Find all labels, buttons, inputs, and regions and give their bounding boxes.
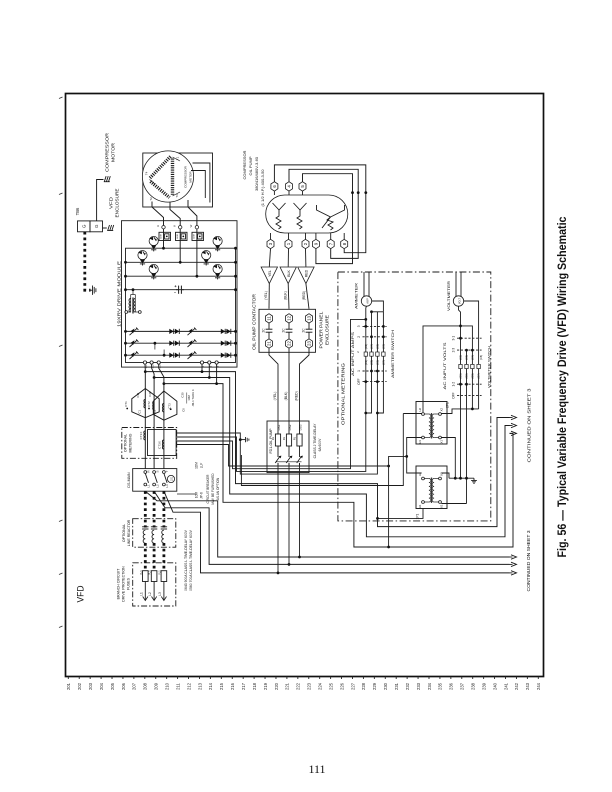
- contactor pole: hexagon, 2C contact, hexagon: [306, 314, 313, 323]
- ammeter switch wires: [365, 319, 367, 413]
- voltmeter leads: [455, 272, 457, 297]
- svg-text:CT3: CT3: [168, 403, 172, 409]
- ammeter leads: [363, 272, 365, 297]
- svg-text:232: 232: [405, 682, 410, 690]
- svg-text:(C4): (C4): [471, 355, 475, 360]
- svg-text:JM-1 THRU 6: JM-1 THRU 6: [191, 389, 195, 406]
- IGBT: [202, 251, 211, 260]
- svg-text:225: 225: [328, 682, 333, 690]
- svg-text:111: 111: [308, 762, 325, 776]
- svg-text:204: 204: [99, 682, 104, 690]
- wires pump terminals to color triangles: [269, 249, 270, 267]
- svg-text:W: W: [189, 224, 193, 227]
- svg-text:(C7): (C7): [477, 373, 481, 378]
- svg-text:COMPRESSOR: COMPRESSOR: [184, 165, 188, 188]
- DS-MAIN pole: [153, 471, 156, 474]
- FD1 interlock bar: [276, 461, 302, 463]
- ammeter: [361, 296, 371, 306]
- svg-text:244: 244: [536, 682, 541, 690]
- svg-text:FU: FU: [282, 437, 286, 441]
- svg-text:AMP: AMP: [367, 298, 370, 304]
- svg-text:G: G: [94, 224, 99, 228]
- svg-text:X2: X2: [440, 408, 444, 412]
- svg-text:POWER PANEL: POWER PANEL: [319, 311, 324, 349]
- svg-text:218: 218: [252, 682, 257, 690]
- svg-text:AMMETER: AMMETER: [355, 282, 359, 309]
- svg-text:T4: T4: [145, 171, 149, 175]
- svg-text:228: 228: [361, 682, 366, 690]
- svg-text:VOLTMETER: VOLTMETER: [447, 280, 451, 311]
- svg-text:212: 212: [186, 682, 191, 690]
- svg-text:(C1): (C1): [364, 360, 368, 365]
- svg-text:1DM: 1DM: [195, 462, 199, 469]
- svg-text:(C2): (C2): [364, 344, 368, 349]
- earth ground (TB6): [91, 289, 93, 291]
- svg-text:T2: T2: [149, 197, 153, 201]
- optional metering dash-dot box (CT auxiliaries): [122, 428, 177, 459]
- CT secondary wires metering box to ammeter switch: [176, 413, 377, 474]
- svg-text:241: 241: [503, 682, 508, 690]
- branch fuse: [161, 571, 167, 582]
- motor leads to LEM sensors: [152, 202, 164, 226]
- svg-text:2C: 2C: [281, 328, 285, 333]
- svg-text:226: 226: [339, 682, 344, 690]
- svg-text:211: 211: [175, 682, 180, 689]
- svg-text:3-1: 3-1: [452, 336, 456, 341]
- svg-text:(C0): (C0): [382, 344, 386, 349]
- transformer 2P1: [416, 402, 447, 445]
- svg-text:OPTIONAL METERING: OPTIONAL METERING: [341, 362, 346, 425]
- voltmeter: [453, 296, 463, 306]
- motor delta winding (hatched): [150, 157, 171, 179]
- svg-text:209: 209: [154, 682, 159, 690]
- svg-text:6A 600V: 6A 600V: [318, 438, 322, 452]
- current transformer CT1 wire jog: [132, 389, 146, 418]
- svg-text:2C: 2C: [261, 328, 265, 333]
- svg-text:OFF: OFF: [357, 378, 361, 384]
- module terminal drops onto tap wires: [201, 364, 203, 372]
- margin zone marks: [59, 97, 63, 99]
- 19XRV drive module inner box: [126, 248, 236, 362]
- svg-text:216: 216: [230, 682, 235, 690]
- svg-text:(YEL): (YEL): [273, 392, 277, 401]
- svg-text:19XRV DRIVE MODULE: 19XRV DRIVE MODULE: [116, 261, 121, 327]
- dashed field wire TB6 to earth ground: [85, 232, 91, 290]
- svg-text:DS2: DS2: [288, 424, 292, 430]
- svg-text:AC INPUT VOLTS: AC INPUT VOLTS: [442, 342, 447, 389]
- svg-text:223: 223: [307, 682, 312, 690]
- DC bus capacitor: [176, 289, 179, 291]
- svg-text:214: 214: [208, 682, 213, 690]
- rectifier row buses: [126, 330, 236, 332]
- svg-text:T1: T1: [176, 156, 180, 160]
- svg-text:CT3X: CT3X: [157, 441, 161, 449]
- svg-text:236: 236: [449, 682, 454, 690]
- svg-text:VOLT: VOLT: [459, 297, 462, 304]
- voltmeter switch contact points: [459, 337, 462, 340]
- current transformer CT3 wire jog: [153, 391, 164, 420]
- oil pump terminal hexagons bottom 3 1 2 9 7 8: [270, 233, 272, 239]
- chassis ground (compressor motor): [104, 181, 110, 183]
- svg-text:219: 219: [263, 682, 268, 690]
- svg-text:1: 1: [357, 370, 361, 372]
- svg-text:C30: C30: [181, 392, 185, 398]
- svg-text:G: G: [82, 224, 87, 228]
- optional metering dash-dot enclosure: [338, 272, 491, 521]
- svg-text:S: S: [155, 470, 159, 472]
- transformer secondary wiring and ground: [441, 438, 455, 479]
- svg-text:(BLK): (BLK): [284, 392, 288, 401]
- earth ground near FD1: [239, 438, 242, 441]
- svg-text:X1: X1: [440, 504, 444, 508]
- compressor motor enclosure outline: [143, 153, 213, 207]
- ruler line-number ticks 201-244: [67, 677, 69, 680]
- svg-text:234: 234: [427, 682, 432, 690]
- routing wire under power panel: [241, 414, 403, 486]
- svg-text:222: 222: [296, 682, 301, 690]
- wires triangles to contactor with labels: [268, 284, 270, 309]
- IGBT: [138, 251, 147, 260]
- svg-text:206: 206: [121, 682, 126, 690]
- svg-text:1S1: 1S1: [171, 476, 174, 481]
- line reactor inductor: [142, 526, 148, 528]
- svg-text:COMPRESSOR: COMPRESSOR: [242, 150, 247, 179]
- transformer primary feeds: [407, 438, 422, 457]
- svg-text:203: 203: [88, 682, 93, 690]
- svg-text:L1: L1: [139, 592, 143, 596]
- svg-text:231: 231: [394, 682, 399, 690]
- svg-text:CT1: CT1: [124, 401, 128, 407]
- wire TB6 to compressor-motor chassis ground: [97, 180, 104, 221]
- fused disconnect FD1-OIL PUMP box: [267, 421, 309, 473]
- border frame: [66, 94, 544, 677]
- svg-text:AC INPUT AMPS: AC INPUT AMPS: [350, 332, 355, 376]
- svg-text:COMPRESSOR: COMPRESSOR: [105, 132, 110, 172]
- svg-text:VOLTMETER SWITCH: VOLTMETER SWITCH: [487, 346, 492, 388]
- svg-text:Fig. 56 — Typical Variable Fre: Fig. 56 — Typical Variable Frequency Dri…: [555, 216, 569, 557]
- DS-MAIN pole: [144, 471, 147, 474]
- 19XRV drive module outer box: [122, 221, 238, 367]
- CT auxiliary solid box: [148, 430, 177, 456]
- svg-text:3: 3: [357, 325, 361, 327]
- svg-text:METERING: METERING: [129, 433, 133, 452]
- svg-text:238: 238: [471, 682, 476, 690]
- svg-text:(C8): (C8): [479, 355, 483, 360]
- svg-text:2P1: 2P1: [446, 402, 450, 408]
- voltmeter feed from transformer 2P1: [423, 326, 472, 412]
- svg-text:221: 221: [285, 682, 290, 690]
- svg-text:LEM: LEM: [177, 234, 179, 239]
- arrows continued on sheet 3 (lower right): [511, 555, 517, 559]
- svg-text:FU: FU: [293, 437, 297, 441]
- svg-text:CT2: CT2: [147, 401, 151, 407]
- svg-text:DRIVE PROTECTION: DRIVE PROTECTION: [122, 566, 126, 602]
- svg-text:OFF: OFF: [452, 392, 456, 398]
- phase wires u v w into inverter: [163, 229, 165, 248]
- svg-text:H1: H1: [418, 504, 422, 508]
- oil pump contactor box: [259, 309, 316, 352]
- svg-text:OPTIONAL: OPTIONAL: [124, 434, 128, 452]
- svg-text:H2: H2: [418, 407, 422, 411]
- svg-text:205: 205: [110, 682, 115, 690]
- svg-text:217: 217: [241, 682, 246, 690]
- svg-text:AS AN OPTION: AS AN OPTION: [216, 477, 220, 500]
- svg-text:(YEL): (YEL): [264, 291, 268, 300]
- svg-text:210: 210: [164, 682, 169, 690]
- svg-text:12: 12: [287, 315, 292, 320]
- svg-text:(C5): (C5): [465, 373, 469, 378]
- svg-text:L2: L2: [155, 484, 159, 488]
- LEM current sensor U: [159, 232, 171, 240]
- ammeter switch position rows: [363, 325, 387, 327]
- voltmeter switch wires: [460, 338, 462, 478]
- svg-text:(C4): (C4): [370, 344, 374, 349]
- svg-text:23: 23: [307, 341, 312, 346]
- transformer 1P1: [416, 466, 447, 509]
- svg-text:10M: 10M: [195, 492, 199, 499]
- SCR pair and diodes row: [130, 328, 138, 335]
- svg-text:C0: C0: [182, 408, 186, 412]
- svg-text:CT1X: CT1X: [139, 432, 143, 440]
- ammeter output wire: [372, 301, 384, 312]
- svg-text:0643 900A CLASS L TIME-DELAY 6: 0643 900A CLASS L TIME-DELAY 600V: [184, 529, 188, 590]
- IGBT: [213, 236, 222, 245]
- svg-text:201: 201: [66, 682, 71, 690]
- svg-text:MAY BE FURNISHED: MAY BE FURNISHED: [211, 473, 215, 505]
- contactor pole: hexagon, 2C contact, hexagon: [286, 314, 293, 323]
- compressor motor circle: [142, 151, 193, 202]
- contactor pole: hexagon, 2C contact, hexagon: [266, 314, 273, 323]
- svg-text:LLF: LLF: [200, 463, 204, 469]
- IGBT: [213, 264, 222, 273]
- LEM current sensor W: [192, 232, 204, 240]
- svg-text:(BLK): (BLK): [284, 291, 288, 300]
- oil pump winding 3 (wye): [317, 205, 334, 230]
- svg-text:JP-6: JP-6: [200, 492, 204, 499]
- phase tap wires to oil pump and metering feeds: [144, 370, 147, 373]
- FD1 load wires to continued runs: [277, 473, 279, 573]
- svg-text:(C6): (C6): [465, 355, 469, 360]
- svg-text:2-3: 2-3: [452, 348, 456, 353]
- interlock handle circle 1S1: [167, 475, 174, 482]
- svg-text:227: 227: [350, 682, 355, 690]
- svg-text:C2: C2: [153, 409, 157, 413]
- svg-text:U: U: [156, 225, 160, 227]
- arrows continued on sheet 3 (upper right): [511, 415, 517, 419]
- oil pump motor stadium outline: [266, 195, 348, 233]
- branch fuse: [143, 571, 149, 582]
- svg-text:TB6: TB6: [75, 207, 80, 215]
- line reactor inductor: [151, 526, 157, 528]
- svg-text:LINE REACTOR: LINE REACTOR: [127, 519, 131, 546]
- svg-text:CONTINUED ON SHEET 3: CONTINUED ON SHEET 3: [527, 388, 532, 463]
- branch fuse: [151, 571, 157, 582]
- svg-text:(C7): (C7): [382, 360, 386, 365]
- svg-text:RED: RED: [305, 269, 309, 277]
- svg-text:AMMETER SWITCH: AMMETER SWITCH: [390, 330, 395, 378]
- SCR pair and diodes row: [130, 340, 138, 347]
- svg-text:(RED): (RED): [295, 391, 299, 400]
- svg-text:L2: L2: [148, 592, 152, 596]
- motor terminal leads T1-T6: [173, 157, 181, 161]
- ammeter switch contacts: [364, 352, 367, 356]
- svg-text:243: 243: [525, 682, 530, 690]
- svg-text:240: 240: [492, 682, 497, 690]
- svg-text:(C3): (C3): [471, 373, 475, 378]
- svg-text:DS-MAIN: DS-MAIN: [127, 472, 131, 488]
- oil pump jumper loops: [274, 165, 365, 253]
- ammeter circuit feed wire: [364, 318, 367, 321]
- optional line reactor dash-dot box: [133, 519, 176, 548]
- inverter bus lines: [126, 261, 236, 263]
- svg-text:C11: C11: [136, 392, 140, 397]
- svg-text:T3: T3: [175, 194, 179, 198]
- wires module terminals to main phase conductors: [144, 364, 146, 469]
- svg-text:215: 215: [219, 682, 224, 690]
- chassis ground (VFD enclosure): [103, 227, 107, 229]
- svg-text:(1 1/2 H.P.) 400-3-50: (1 1/2 H.P.) 400-3-50: [260, 169, 265, 207]
- svg-text:ENCLOSURE: ENCLOSURE: [115, 189, 120, 218]
- LEM current sensor V: [176, 232, 188, 240]
- svg-text:BLK: BLK: [287, 270, 291, 277]
- svg-text:FUSES: FUSES: [127, 577, 131, 590]
- SCR pair and diodes row: [130, 352, 138, 359]
- svg-text:FU1: FU1: [149, 570, 152, 575]
- svg-text:13: 13: [307, 315, 312, 320]
- svg-text:229: 229: [372, 682, 377, 690]
- motor terminal circles u v w: [162, 226, 165, 229]
- svg-text:(RED): (RED): [302, 291, 306, 300]
- ammeter switch contact points: [364, 325, 367, 328]
- svg-text:235: 235: [438, 682, 443, 690]
- oil pump terminal hexagons top 6 4 5: [273, 191, 275, 195]
- svg-text:CONTINUED ON SHEET 3: CONTINUED ON SHEET 3: [526, 530, 531, 591]
- svg-text:380/416/480V-3-60: 380/416/480V-3-60: [254, 156, 259, 191]
- svg-text:224: 224: [317, 682, 322, 690]
- svg-text:OIL PUMP CONTACTOR: OIL PUMP CONTACTOR: [252, 293, 257, 350]
- oil pump winding 2: [294, 203, 303, 229]
- svg-text:CIRCUIT BREAKER: CIRCUIT BREAKER: [206, 474, 210, 504]
- svg-text:MOTOR: MOTOR: [111, 142, 116, 162]
- svg-text:T: T: [165, 470, 169, 472]
- svg-text:(C3): (C3): [370, 360, 374, 365]
- svg-text:208: 208: [143, 682, 148, 690]
- gate-drive transformer: [125, 311, 128, 314]
- svg-text:OIL PUMP: OIL PUMP: [248, 156, 253, 175]
- svg-text:FU1: FU1: [140, 570, 143, 575]
- svg-text:22: 22: [287, 341, 292, 346]
- svg-text:DS3: DS3: [298, 424, 302, 430]
- svg-text:L1: L1: [147, 484, 151, 488]
- svg-text:BRANCH CIRCUIT: BRANCH CIRCUIT: [117, 568, 121, 600]
- svg-text:MOTOR: MOTOR: [189, 171, 193, 183]
- svg-text:239: 239: [481, 682, 486, 690]
- wires contactor to FD1 fuses with labels: [269, 348, 278, 434]
- svg-text:213: 213: [197, 682, 202, 690]
- svg-text:LEM: LEM: [160, 234, 162, 239]
- voltmeter switch position rows: [457, 337, 482, 339]
- svg-text:OPTIONAL: OPTIONAL: [122, 524, 126, 542]
- IGBT: [149, 264, 158, 273]
- voltmeter output wire: [464, 301, 479, 338]
- IGBT: [149, 236, 158, 245]
- earth ground near 1P1: [473, 478, 475, 480]
- svg-text:202: 202: [77, 682, 82, 690]
- svg-text:VFD: VFD: [76, 585, 86, 602]
- svg-text:C1: C1: [137, 410, 141, 414]
- terminal block TB6: [78, 221, 91, 232]
- motor lead to enclosure right side: [193, 163, 210, 203]
- svg-text:242: 242: [514, 682, 519, 690]
- svg-text:VFD: VFD: [109, 196, 114, 209]
- option note leader line: [177, 493, 196, 495]
- svg-text:1-2: 1-2: [452, 382, 456, 387]
- svg-text:220: 220: [274, 682, 279, 690]
- svg-text:H1: H1: [418, 440, 422, 444]
- voltmeter switch contacts: [459, 364, 462, 368]
- svg-text:21: 21: [267, 341, 272, 346]
- bus junctions right edge: [234, 247, 237, 250]
- branch circuit protection fuses dash-dot box: [133, 563, 176, 606]
- svg-text:V: V: [173, 225, 177, 227]
- svg-text:FU: FU: [271, 437, 275, 441]
- svg-text:237: 237: [460, 682, 465, 690]
- DS-MAIN pole: [163, 471, 166, 474]
- svg-text:2: 2: [357, 336, 361, 338]
- oil pump winding 1: [273, 203, 282, 229]
- svg-text:LEM: LEM: [193, 234, 195, 239]
- field wiring dotted conductors L1 L2 L3: [144, 491, 147, 527]
- CT1X coil: [144, 431, 146, 440]
- svg-text:207: 207: [132, 682, 137, 690]
- svg-text:L3: L3: [158, 592, 162, 596]
- svg-text:2C: 2C: [301, 328, 305, 333]
- svg-text:FU1: FU1: [159, 570, 162, 575]
- svg-text:230: 230: [383, 682, 388, 690]
- wire color triangles YEL BLK RED: [261, 267, 277, 284]
- svg-text:(C2): (C2): [459, 355, 463, 360]
- svg-text:0560 700A CLASS L TIME-DELAY 6: 0560 700A CLASS L TIME-DELAY 600V: [189, 529, 193, 590]
- svg-text:11: 11: [267, 316, 272, 321]
- svg-text:(C1): (C1): [459, 373, 463, 378]
- module bottom terminals: [143, 361, 146, 364]
- svg-text:YEL: YEL: [268, 270, 272, 277]
- svg-text:(C5): (C5): [376, 360, 380, 365]
- svg-text:10M: 10M: [187, 395, 191, 401]
- svg-text:C20: C20: [148, 391, 152, 397]
- svg-text:X1: X1: [440, 440, 444, 444]
- disconnect switch DS-MAIN box: [133, 469, 177, 492]
- svg-text:233: 233: [416, 682, 421, 690]
- CT3X coil: [162, 440, 164, 449]
- svg-text:(C6): (C6): [376, 344, 380, 349]
- svg-text:ENCLOSURE: ENCLOSURE: [325, 315, 330, 345]
- svg-text:CLASS J TIME-DELAY: CLASS J TIME-DELAY: [313, 423, 317, 458]
- line reactor inductor: [161, 526, 167, 528]
- step wires DS-MAIN to continued-on-sheet-3 runs: [145, 491, 509, 557]
- svg-text:L3: L3: [165, 484, 169, 488]
- CT coil marks: [144, 400, 145, 408]
- svg-text:DS1: DS1: [277, 424, 281, 430]
